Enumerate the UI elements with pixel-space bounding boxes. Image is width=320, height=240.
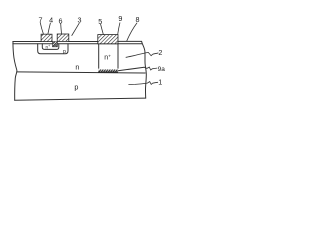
svg-text:6: 6 [59,17,63,26]
svg-text:5: 5 [98,17,102,26]
svg-text:7: 7 [39,16,43,25]
svg-text:8: 8 [136,15,140,24]
svg-text:4: 4 [49,16,53,25]
svg-text:9a: 9a [158,66,166,73]
svg-text:n: n [75,63,79,72]
svg-text:1: 1 [158,78,162,87]
svg-text:3: 3 [78,16,82,25]
svg-text:9: 9 [118,14,122,23]
svg-text:2: 2 [158,48,162,57]
svg-text:p: p [63,49,66,55]
svg-text:p: p [74,82,78,91]
